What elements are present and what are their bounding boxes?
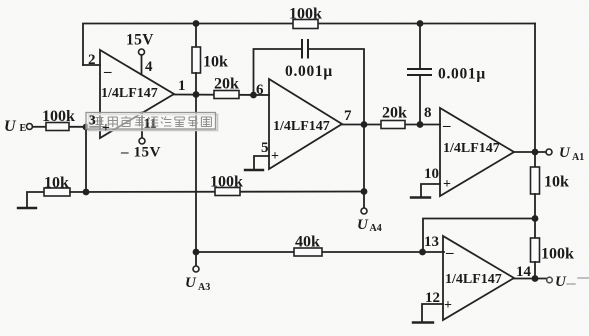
op-amp U4 (1/4LF147)	[443, 236, 514, 320]
resistor 20k (U2 to U3)	[381, 121, 405, 129]
resistor 100k (middle)	[215, 188, 240, 196]
capacitor 0.001u (vertical branch)	[408, 24, 431, 125]
node: U1 output junction	[193, 91, 200, 98]
ground (U4 pin12)	[413, 304, 443, 323]
terminal UA1	[546, 149, 552, 155]
terminal UA4	[361, 208, 367, 214]
wire: top feedback bus y=23	[83, 24, 535, 66]
wire: U4 output	[514, 278, 546, 280]
wire: U2 feedback loop	[254, 49, 303, 95]
watermark char 6	[161, 117, 172, 127]
node: UA4 junction on y=192 bus	[361, 188, 368, 195]
wire: y=192 bus	[70, 191, 364, 194]
watermark char 8	[188, 117, 198, 127]
wire: U4 feedback from right column to pin13	[423, 219, 535, 253]
resistor 20k (U1 out to U2)	[214, 91, 239, 99]
ground (bottom-left)	[18, 192, 44, 208]
wire: input node down to y=192 bus	[85, 127, 87, 192]
capacitor 0.001u (U2 feedback)	[302, 40, 308, 58]
resistor 10k (vertical, top middle)	[192, 24, 201, 95]
watermark char 9	[201, 117, 211, 127]
paper texture (decorative)	[0, 0, 1, 1]
op-amp U1 (1/4LF147)	[100, 50, 174, 138]
resistor 10k (bottom-left)	[44, 188, 70, 196]
node: top bus junction at x=196	[193, 20, 200, 27]
op-amp U2 (1/4LF147)	[269, 79, 342, 169]
node: U4 pin13 junction	[419, 249, 426, 256]
node: junction 10k/bus	[83, 189, 90, 196]
ground (U2 pin5)	[245, 156, 269, 170]
wire: mid column from U1 output node down to UA3 node	[195, 95, 197, 253]
watermark char 4	[134, 118, 145, 127]
watermark box with CJK text	[86, 113, 218, 136]
watermark char 5	[148, 117, 159, 126]
watermark char 3	[121, 116, 131, 127]
watermark char 1	[94, 118, 105, 127]
resistor 100k (right column)	[531, 219, 540, 279]
op-amp U3 (1/4LF147)	[440, 108, 514, 196]
node: U2 pin6 junction	[250, 92, 257, 99]
node: UA1 junction	[532, 149, 539, 156]
node: right column mid junction	[532, 215, 539, 222]
terminal UA3	[193, 252, 199, 272]
terminal U output (faded)	[547, 277, 553, 283]
wire: right vertical from top bus down to UA1 node	[534, 24, 536, 153]
wire: pin2 stub of op-amp U1	[83, 64, 100, 66]
ground (U3 pin10)	[411, 184, 440, 198]
resistor 100k (input)	[46, 123, 100, 131]
terminal UE input	[27, 124, 47, 130]
node: U4 output junction	[532, 275, 539, 282]
power +15V terminal	[139, 49, 145, 75]
resistor 40k	[294, 248, 322, 256]
wire: U2 output node down to UA4	[363, 125, 365, 209]
resistor 10k (right column)	[531, 152, 540, 219]
resistor 100k (top feedback)	[293, 20, 318, 29]
node: UA3 junction	[193, 249, 200, 256]
power -15V terminal	[139, 113, 145, 145]
watermark char 7	[175, 117, 185, 127]
wire: U2 output to U3 pin8	[342, 124, 440, 126]
node: input junction	[83, 124, 90, 131]
wire: UA3 node to U4 pin13	[196, 251, 444, 253]
wire: U3 output to UA1 terminal	[514, 151, 546, 153]
node: top bus junction at x=420	[417, 20, 424, 27]
node: U2 output junction	[361, 121, 368, 128]
node: U3 pin8 junction	[417, 121, 424, 128]
watermark char 2	[108, 117, 117, 127]
wire: op-amp U1 output to op-amp U2 pin6	[174, 94, 269, 97]
